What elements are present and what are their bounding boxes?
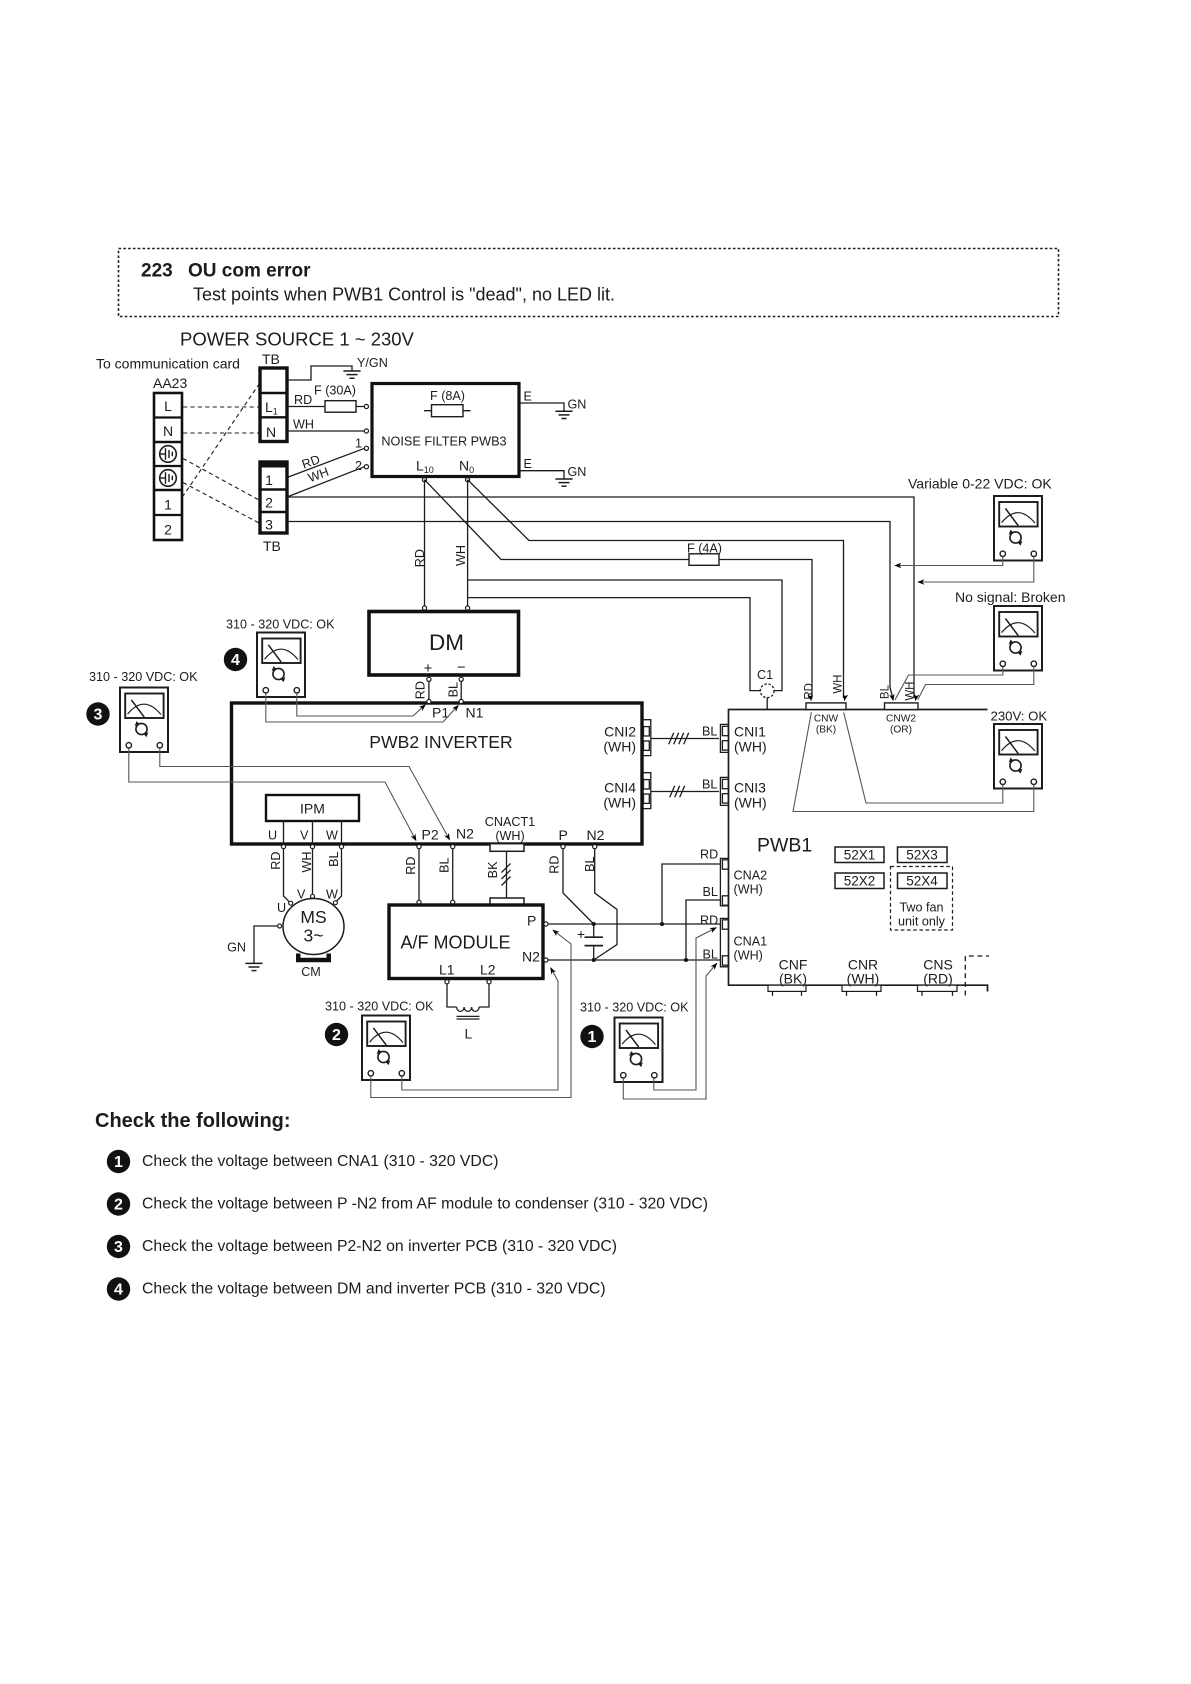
probe wire meter C left to CNW right pin bbox=[844, 713, 1003, 804]
dashed link AA23 gnd2 to TB2 cell 3 bbox=[183, 483, 259, 524]
svg-text:+: + bbox=[577, 926, 585, 942]
SECTION: power source / terminal blocks bbox=[96, 351, 388, 554]
wire RD drop L10 to DM bbox=[424, 480, 426, 606]
svg-text:P2: P2 bbox=[422, 827, 439, 843]
svg-text:52X2: 52X2 bbox=[844, 874, 876, 889]
wire IPM V bbox=[312, 821, 314, 844]
SECTION: bus wires bbox=[287, 480, 919, 702]
pin circle L1 bbox=[445, 980, 449, 984]
SECTION: DM and C1 bbox=[369, 606, 774, 709]
meter 3 bbox=[120, 688, 168, 753]
wire U to motor bbox=[284, 849, 290, 902]
arrowhead meter 1 right bbox=[709, 925, 718, 933]
svg-text:BL: BL bbox=[703, 948, 718, 962]
svg-text:(WH): (WH) bbox=[734, 949, 763, 963]
pin circle DM bottom plus bbox=[427, 677, 431, 681]
svg-text:N: N bbox=[266, 424, 276, 440]
SECTION: title block bbox=[119, 249, 1059, 350]
pin circle AF N2 bbox=[544, 958, 548, 962]
wire DM minus to N1 bbox=[460, 681, 462, 699]
svg-text:Check the voltage between P2-N: Check the voltage between P2-N2 on inver… bbox=[142, 1238, 617, 1255]
svg-text:4: 4 bbox=[114, 1282, 123, 1299]
arrowhead meter 1 left bbox=[711, 961, 720, 970]
fuse F (8A) bbox=[424, 405, 471, 417]
connector CNI1 bracket bbox=[720, 724, 728, 752]
pin circle L10 bbox=[422, 478, 426, 482]
arrowhead meter 3 left bbox=[411, 834, 419, 843]
svg-text:N2: N2 bbox=[522, 949, 540, 965]
pin circle AF P bbox=[544, 922, 548, 926]
svg-text:L: L bbox=[465, 1026, 473, 1042]
svg-text:MS: MS bbox=[300, 907, 326, 927]
svg-text:F (4A): F (4A) bbox=[687, 542, 722, 556]
svg-text:(WH): (WH) bbox=[734, 739, 767, 755]
connector CNACT1 bottom bbox=[490, 898, 524, 905]
arrowhead at CNW2 BL pin bbox=[889, 694, 896, 702]
probe wire meter A right to WH line bbox=[922, 557, 1034, 582]
svg-text:CNI4: CNI4 bbox=[604, 780, 636, 796]
ground GN motor bbox=[245, 963, 262, 970]
svg-text:Y/GN: Y/GN bbox=[357, 356, 388, 370]
junction dot cap bottom bbox=[592, 958, 596, 962]
svg-text:(BK): (BK) bbox=[816, 725, 836, 736]
hatch marks CNI4 wire bbox=[670, 786, 685, 798]
wire motor to ground bbox=[254, 926, 278, 963]
fuse F (30A) bbox=[325, 401, 356, 413]
svg-text:Check the voltage between P -N: Check the voltage between P -N2 from AF … bbox=[142, 1196, 708, 1213]
svg-text:L2: L2 bbox=[480, 962, 496, 978]
svg-text:L: L bbox=[164, 398, 172, 414]
dashed box two fan unit bbox=[891, 867, 953, 931]
svg-text:(WH): (WH) bbox=[734, 883, 763, 897]
svg-text:310 - 320 VDC: OK: 310 - 320 VDC: OK bbox=[226, 618, 335, 632]
SECTION: PWB1 bbox=[700, 675, 989, 996]
wire branch to CNA2 BL bbox=[686, 900, 720, 960]
SECTION: noise filter bbox=[355, 384, 586, 487]
badge 3 bbox=[86, 702, 109, 725]
svg-text:Check the voltage between CNA1: Check the voltage between CNA1 (310 - 32… bbox=[142, 1153, 499, 1170]
wire IPM W bbox=[341, 821, 343, 844]
motor MS circle bbox=[283, 899, 344, 955]
svg-text:1: 1 bbox=[114, 1154, 123, 1171]
svg-text:CNI1: CNI1 bbox=[734, 724, 766, 740]
pin circle P2 bbox=[417, 845, 421, 849]
svg-text:(WH): (WH) bbox=[603, 795, 636, 811]
junction dot branch CNA2 BL bbox=[684, 958, 688, 962]
svg-text:CNW2: CNW2 bbox=[886, 714, 916, 725]
svg-text:No signal: Broken: No signal: Broken bbox=[955, 589, 1066, 605]
arrowhead meter 4 right bbox=[419, 702, 428, 711]
wire E top to ground bbox=[519, 403, 564, 411]
svg-text:(RD): (RD) bbox=[923, 971, 953, 987]
SECTION: meters bbox=[86, 476, 1065, 1100]
svg-text:CNA2: CNA2 bbox=[734, 869, 768, 883]
svg-text:2: 2 bbox=[332, 1027, 341, 1044]
wire diagonal TB2-1 to filter pin 1 bbox=[287, 448, 365, 477]
svg-text:WH: WH bbox=[300, 852, 314, 873]
svg-text:A/F MODULE: A/F MODULE bbox=[400, 933, 510, 953]
wire IPM U bbox=[283, 821, 285, 844]
svg-text:CNI2: CNI2 bbox=[604, 724, 636, 740]
svg-text:4: 4 bbox=[231, 652, 240, 669]
svg-text:3~: 3~ bbox=[304, 926, 324, 946]
connector CNW2 bbox=[885, 703, 919, 710]
wire diagonal TB2-2 to filter pin 2 bbox=[287, 467, 365, 497]
wire BL N2 to AF module bbox=[452, 849, 454, 901]
wire bus TB2-3 to CNW2 BL pin bbox=[287, 522, 893, 698]
probe wire meter B left to CNW2 BL pin bbox=[895, 667, 1003, 700]
wire L10 to fuse F4A to CNW RD pin bbox=[425, 480, 813, 698]
svg-text:POWER SOURCE 1 ~ 230V: POWER SOURCE 1 ~ 230V bbox=[180, 329, 415, 350]
svg-text:RD: RD bbox=[294, 393, 312, 407]
AF module box bbox=[389, 905, 543, 979]
svg-text:CNA1: CNA1 bbox=[734, 935, 768, 949]
svg-text:1: 1 bbox=[164, 497, 172, 513]
svg-text:RD: RD bbox=[269, 852, 283, 870]
svg-text:3: 3 bbox=[265, 517, 273, 533]
svg-text:BL: BL bbox=[702, 778, 717, 792]
connector CNA2 bracket bbox=[720, 858, 728, 905]
badge item 2 bbox=[107, 1192, 130, 1215]
PWB2 inverter box bbox=[232, 703, 643, 844]
wire branch to C1 right bbox=[468, 580, 782, 691]
pin circle RD input bbox=[364, 404, 368, 408]
svg-text:V: V bbox=[300, 829, 309, 843]
svg-text:52X4: 52X4 bbox=[906, 874, 938, 889]
svg-text:(WH): (WH) bbox=[734, 795, 767, 811]
svg-text:CM: CM bbox=[301, 965, 321, 979]
svg-text:RD: RD bbox=[804, 683, 816, 700]
svg-text:BK: BK bbox=[486, 861, 500, 878]
svg-text:CNI3: CNI3 bbox=[734, 780, 766, 796]
arrowhead at CNW RD pin bbox=[807, 694, 814, 702]
svg-text:N: N bbox=[163, 423, 173, 439]
pin circle N0 bbox=[466, 478, 470, 482]
probe wire meter 3 right to N2 bbox=[160, 748, 449, 837]
svg-text:310 - 320 VDC: OK: 310 - 320 VDC: OK bbox=[89, 670, 198, 684]
svg-text:P: P bbox=[559, 827, 568, 843]
pin circle WH input bbox=[364, 429, 368, 433]
probe wire meter B right to CNW2 WH pin bbox=[918, 667, 1034, 700]
svg-text:(WH): (WH) bbox=[847, 971, 880, 987]
pin circle motor left bbox=[278, 924, 282, 928]
pin circle W bbox=[339, 845, 343, 849]
dashed title frame bbox=[119, 249, 1059, 317]
svg-text:RD: RD bbox=[404, 857, 418, 875]
svg-text:L1: L1 bbox=[439, 962, 455, 978]
svg-text:RD: RD bbox=[548, 856, 562, 874]
svg-text:RD: RD bbox=[414, 681, 428, 699]
svg-text:WH: WH bbox=[454, 545, 468, 566]
fuse F (4A) bbox=[689, 554, 719, 566]
svg-text:E: E bbox=[524, 457, 532, 471]
badge 2 bbox=[325, 1023, 348, 1046]
svg-text:RD: RD bbox=[700, 848, 718, 862]
wire DM plus to P1 bbox=[428, 681, 430, 699]
relay box 52X4 bbox=[898, 873, 948, 889]
svg-text:C1: C1 bbox=[757, 668, 773, 682]
svg-text:PWB2 INVERTER: PWB2 INVERTER bbox=[369, 732, 512, 752]
connector CNR bbox=[842, 985, 881, 996]
svg-text:(WH): (WH) bbox=[495, 829, 524, 843]
pin circle 2 bbox=[364, 465, 368, 469]
svg-text:GN: GN bbox=[227, 941, 246, 955]
svg-text:310 - 320 VDC: OK: 310 - 320 VDC: OK bbox=[580, 1001, 689, 1015]
badge item 4 bbox=[107, 1277, 130, 1300]
probe wire meter A left to BL line bbox=[899, 557, 1003, 566]
svg-text:E: E bbox=[524, 390, 532, 404]
svg-text:N2: N2 bbox=[456, 826, 474, 842]
dashed link AA23 gnd1 to TB2 cell 2 bbox=[183, 459, 259, 501]
svg-text:U: U bbox=[277, 901, 286, 915]
svg-text:P: P bbox=[527, 913, 536, 929]
connector CNF bbox=[768, 985, 806, 996]
terminal block AA23 bbox=[154, 393, 182, 540]
inductor L bbox=[447, 984, 489, 1019]
probe wire meter 4 left to N1 bbox=[266, 693, 457, 722]
svg-text:Test points when PWB1 Control: Test points when PWB1 Control is "dead",… bbox=[193, 285, 615, 305]
arrowhead meter A left bbox=[894, 563, 901, 568]
IPM box bbox=[266, 795, 359, 821]
wire RD P2 to AF module bbox=[418, 849, 420, 901]
svg-text:1: 1 bbox=[355, 437, 362, 451]
pin circle U bbox=[281, 845, 285, 849]
svg-text:CNW: CNW bbox=[814, 714, 839, 725]
svg-text:Variable 0-22 VDC: OK: Variable 0-22 VDC: OK bbox=[908, 476, 1052, 492]
terminal block TB lower bbox=[260, 462, 287, 533]
svg-text:U: U bbox=[268, 829, 277, 843]
svg-text:1: 1 bbox=[588, 1029, 597, 1046]
svg-text:DM: DM bbox=[429, 630, 464, 655]
arrowhead meter 2 left bbox=[551, 927, 560, 936]
connector CNI3 bracket bbox=[720, 777, 728, 805]
wire N2 line AF to CNA1 BL bbox=[548, 959, 720, 961]
svg-text:(OR): (OR) bbox=[890, 725, 912, 736]
svg-text:2: 2 bbox=[355, 459, 362, 473]
dashed link L to L1 bbox=[183, 406, 259, 408]
arrowhead meter 3 right bbox=[444, 833, 452, 842]
svg-text:BL: BL bbox=[880, 684, 892, 699]
probe wire meter 4 right to P1 bbox=[297, 693, 424, 716]
dashed option corner bbox=[965, 956, 989, 996]
wire bus TB2-2 to CNW2 WH pin bbox=[287, 497, 914, 698]
meter B (No signal) bbox=[994, 606, 1042, 671]
CM bracket bbox=[296, 954, 331, 963]
wire RD from L1 to noise filter bbox=[287, 406, 364, 408]
svg-text:+: + bbox=[424, 661, 432, 677]
meter A (Variable 0-22 VDC) bbox=[994, 496, 1042, 561]
probe wire meter 1 right to CNA1 RD bbox=[654, 929, 714, 1090]
wire CNI2 to CNI1 bbox=[651, 738, 719, 740]
svg-text:BL: BL bbox=[447, 682, 461, 697]
svg-text:RD: RD bbox=[700, 914, 718, 928]
arrowhead meter 4 left bbox=[452, 703, 461, 712]
svg-text:Check the voltage between DM a: Check the voltage between DM and inverte… bbox=[142, 1281, 606, 1298]
hatch marks CNI2 wire bbox=[669, 733, 689, 745]
pin circle DM top right bbox=[466, 606, 470, 610]
SECTION: AF module bbox=[389, 849, 720, 1042]
svg-text:52X3: 52X3 bbox=[906, 848, 938, 863]
badge 1 bbox=[580, 1025, 603, 1048]
wire branch to C1 left bbox=[468, 598, 761, 691]
ground icon AA23 cell 4 bbox=[160, 470, 177, 487]
meter 4 bbox=[257, 633, 305, 698]
connector CNI4 bracket bbox=[643, 773, 651, 809]
badge 4 bbox=[224, 648, 247, 671]
svg-text:2: 2 bbox=[265, 495, 273, 511]
connector CNS bbox=[918, 985, 958, 996]
hatch marks BK wire bbox=[502, 864, 511, 886]
SECTION: motor bbox=[227, 849, 344, 979]
wire PWB2 N2 drop (jog around capacitor) bbox=[594, 849, 617, 960]
capacitor (reservoir) bbox=[585, 924, 604, 960]
pin circle motor W bbox=[333, 901, 337, 905]
svg-text:CNACT1: CNACT1 bbox=[485, 815, 535, 829]
svg-text:IPM: IPM bbox=[300, 801, 325, 817]
svg-text:2: 2 bbox=[114, 1197, 123, 1214]
svg-text:W: W bbox=[326, 829, 338, 843]
badge item 1 bbox=[107, 1150, 130, 1173]
pin circle DM bottom minus bbox=[459, 677, 463, 681]
svg-text:2: 2 bbox=[164, 522, 172, 538]
probe wire meter 1 left to CNA1 BL bbox=[623, 965, 715, 1099]
SECTION: PWB2 inverter bbox=[232, 699, 720, 905]
pin circle P (right) bbox=[561, 845, 565, 849]
relay box 52X1 bbox=[835, 847, 884, 863]
pin circle DM top left bbox=[422, 606, 426, 610]
terminal block TB upper bbox=[260, 368, 287, 442]
wire PWB2 P drop bbox=[563, 849, 594, 924]
svg-text:Check the following:: Check the following: bbox=[95, 1110, 291, 1132]
wire W to motor bbox=[337, 849, 342, 901]
relay box 52X2 bbox=[835, 873, 884, 889]
ground GN bottom bbox=[555, 479, 572, 486]
wire CNI4 to CNI3 bbox=[651, 791, 719, 793]
wire BK CNACT1 to AF module bbox=[506, 851, 508, 898]
connector CNI2 bracket bbox=[643, 720, 651, 756]
svg-text:NOISE FILTER PWB3: NOISE FILTER PWB3 bbox=[381, 435, 506, 449]
svg-text:WH: WH bbox=[833, 675, 845, 694]
pin circle AF top right bbox=[451, 900, 455, 904]
svg-text:52X1: 52X1 bbox=[844, 848, 876, 863]
svg-text:223OU com error: 223OU com error bbox=[141, 261, 311, 282]
svg-text:BL: BL bbox=[327, 852, 341, 867]
wire branch to CNA2 RD bbox=[662, 864, 720, 924]
svg-text:GN: GN bbox=[568, 465, 587, 479]
probe wire meter C right to CNW left pin bbox=[793, 712, 1034, 811]
PWB1 board outline bbox=[729, 710, 988, 992]
svg-text:Two fan: Two fan bbox=[899, 901, 943, 915]
junction dot cap top bbox=[592, 922, 596, 926]
svg-text:unit only: unit only bbox=[898, 915, 946, 929]
wire TB top cell to Y/GN ground bbox=[287, 366, 352, 380]
ground GN top bbox=[555, 411, 572, 418]
pin circle N2 (left) bbox=[451, 845, 455, 849]
svg-text:W: W bbox=[326, 888, 338, 902]
svg-text:WH: WH bbox=[905, 682, 917, 701]
svg-text:F (30A): F (30A) bbox=[314, 384, 356, 398]
pin circle L2 bbox=[487, 980, 491, 984]
pin circle AF top left bbox=[417, 900, 421, 904]
svg-text:(BK): (BK) bbox=[779, 971, 807, 987]
meter 2 bbox=[362, 1016, 410, 1081]
svg-text:BL: BL bbox=[702, 725, 717, 739]
svg-text:WH: WH bbox=[293, 418, 314, 432]
DM box bbox=[369, 612, 519, 676]
pin circle N1 bbox=[459, 699, 463, 703]
svg-text:BL: BL bbox=[703, 885, 718, 899]
svg-text:1: 1 bbox=[265, 472, 273, 488]
wire V to motor bbox=[312, 849, 314, 895]
svg-text:BL: BL bbox=[583, 857, 597, 872]
pin circle V bbox=[310, 845, 314, 849]
wire WH drop N0 to DM minus bbox=[467, 480, 469, 606]
capacitor C1 (dashed circle) bbox=[760, 684, 774, 698]
connector CNA1 bracket bbox=[720, 918, 728, 966]
junction dot branch CNA2 RD bbox=[660, 922, 664, 926]
svg-text:3: 3 bbox=[94, 707, 103, 724]
ground Y/GN bbox=[343, 371, 360, 378]
wire E bottom to ground bbox=[519, 471, 564, 479]
badge item 3 bbox=[107, 1235, 130, 1258]
svg-text:−: − bbox=[457, 660, 465, 676]
probe wire meter 2 right to AF N2 bbox=[402, 970, 558, 1090]
meter C (230V) bbox=[994, 724, 1042, 789]
dashed link TB top cell to AA23 cell 1 bbox=[183, 384, 260, 497]
pin circle 1 bbox=[364, 446, 368, 450]
ground icon AA23 cell 3 bbox=[160, 446, 177, 463]
svg-text:N1: N1 bbox=[466, 705, 484, 721]
svg-text:BL: BL bbox=[438, 858, 452, 873]
svg-text:230V: OK: 230V: OK bbox=[991, 709, 1048, 724]
probe wire meter 2 left to AF P bbox=[371, 932, 571, 1098]
pin circle motor V bbox=[311, 894, 315, 898]
arrowhead at CNW2 WH pin bbox=[913, 694, 920, 702]
svg-text:310 - 320 VDC: OK: 310 - 320 VDC: OK bbox=[325, 1000, 434, 1014]
meter 1 bbox=[615, 1018, 663, 1083]
svg-text:TB: TB bbox=[263, 538, 281, 554]
SECTION: check list bbox=[95, 1110, 708, 1301]
pin circle motor U bbox=[289, 901, 293, 905]
svg-text:RD: RD bbox=[413, 549, 427, 567]
arrowhead meter 2 right bbox=[548, 966, 556, 975]
connector CNACT1 top bbox=[490, 844, 524, 852]
relay box 52X3 bbox=[898, 847, 948, 863]
wire C1 to PWB1 bbox=[766, 698, 768, 709]
pin circle N2 (right) bbox=[593, 845, 597, 849]
connector CNW bbox=[806, 703, 846, 710]
svg-text:F (8A): F (8A) bbox=[430, 389, 465, 403]
svg-text:PWB1: PWB1 bbox=[757, 835, 812, 857]
svg-text:To communication card: To communication card bbox=[96, 356, 240, 372]
svg-text:GN: GN bbox=[568, 398, 587, 412]
noise filter PWB3 box bbox=[372, 384, 519, 477]
svg-text:TB: TB bbox=[262, 351, 280, 367]
probe wire meter 3 left to P2 bbox=[129, 748, 415, 838]
wire WH from N to noise filter bbox=[287, 430, 364, 432]
svg-text:AA23: AA23 bbox=[153, 375, 187, 391]
arrowhead meter A right bbox=[917, 579, 924, 584]
arrowhead at CNW WH pin bbox=[842, 694, 849, 702]
svg-text:N2: N2 bbox=[587, 827, 605, 843]
pin circle P1 bbox=[427, 699, 431, 703]
wire P line AF to CNA1 RD bbox=[548, 923, 720, 925]
svg-text:(WH): (WH) bbox=[603, 739, 636, 755]
wire N0 to CNW WH pin bbox=[468, 480, 844, 698]
svg-text:3: 3 bbox=[114, 1239, 123, 1256]
dashed link N to N bbox=[183, 432, 259, 434]
